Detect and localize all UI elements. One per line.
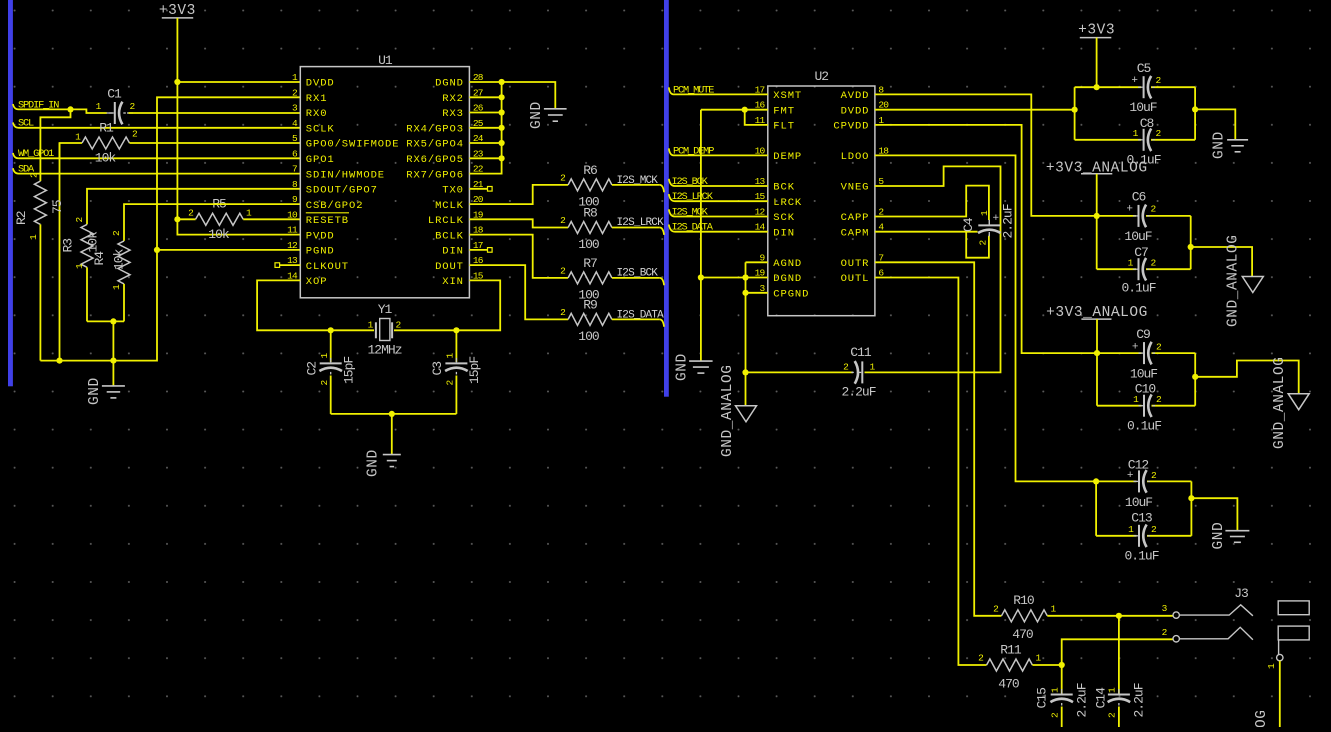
svg-text:C4: C4 bbox=[961, 217, 976, 232]
svg-text:LRCK: LRCK bbox=[773, 197, 802, 209]
svg-text:DEMP: DEMP bbox=[773, 151, 802, 163]
connector J3 bbox=[1162, 586, 1310, 669]
wire SPDIF to R2 bbox=[40, 109, 70, 181]
wire C5 to GND bbox=[1195, 109, 1235, 139]
svg-text:J3: J3 bbox=[1234, 586, 1248, 601]
capacitor C4 bbox=[961, 204, 1016, 245]
svg-text:TX0: TX0 bbox=[442, 185, 464, 197]
ground GND (U2) bbox=[675, 353, 713, 381]
svg-text:C3: C3 bbox=[430, 362, 445, 376]
IC U1 bbox=[287, 53, 484, 298]
junction GND rail a bbox=[56, 358, 62, 364]
svg-text:10uF: 10uF bbox=[1130, 367, 1157, 382]
net label PCM_DEMP bbox=[669, 146, 714, 158]
svg-text:10uF: 10uF bbox=[1124, 229, 1151, 244]
wire RX1 tie bbox=[157, 97, 300, 250]
ground GND_ANALOG (C6) bbox=[1226, 234, 1264, 327]
bus B1 (left) bbox=[8, 0, 13, 386]
svg-text:C8: C8 bbox=[1140, 116, 1154, 131]
svg-text:10k: 10k bbox=[95, 151, 117, 166]
svg-text:AVDD: AVDD bbox=[841, 90, 870, 102]
svg-text:10k: 10k bbox=[86, 231, 101, 253]
svg-text:VNEG: VNEG bbox=[841, 182, 870, 194]
wire to GND bbox=[112, 321, 114, 360]
svg-text:GND: GND bbox=[529, 101, 545, 129]
svg-text:CSB/GPO2: CSB/GPO2 bbox=[306, 200, 364, 212]
wire FMT to GND bbox=[700, 110, 702, 361]
ground GND (left) bbox=[87, 361, 125, 405]
resistor R5 bbox=[177, 197, 252, 243]
junction R10/C14 bbox=[1116, 613, 1122, 619]
net label I2S_DATA (U2) bbox=[669, 222, 768, 234]
capacitor C15 bbox=[1035, 683, 1090, 727]
svg-text:15pF: 15pF bbox=[467, 357, 482, 384]
wire VNEG bbox=[865, 166, 1001, 372]
net label SCL bbox=[13, 118, 34, 130]
wire CAPM bbox=[875, 231, 978, 233]
junction R3/R4 bbox=[110, 318, 116, 324]
ground GND (U1 top right) bbox=[529, 101, 567, 129]
svg-text:10k: 10k bbox=[112, 248, 127, 270]
wire R11 to J3 pin2 bbox=[1032, 639, 1173, 665]
capacitor C2 bbox=[305, 330, 357, 414]
svg-text:GND: GND bbox=[1211, 522, 1227, 550]
wire +3V3 to DVDD/PVDD bbox=[177, 18, 300, 235]
junction DGND 1 bbox=[499, 94, 505, 100]
svg-text:R9: R9 bbox=[583, 297, 597, 312]
wire C2/C3 gnd rail bbox=[331, 413, 457, 415]
svg-text:GND: GND bbox=[1212, 131, 1228, 159]
svg-text:GPO0/SWIFMODE: GPO0/SWIFMODE bbox=[306, 139, 400, 151]
svg-text:+3V3: +3V3 bbox=[1078, 22, 1115, 38]
wire LDOO bbox=[875, 155, 1096, 481]
svg-text:RESETB: RESETB bbox=[306, 215, 349, 227]
svg-text:LRCLK: LRCLK bbox=[428, 215, 464, 227]
capacitor C14 bbox=[1094, 683, 1147, 727]
svg-text:FLT: FLT bbox=[773, 121, 795, 133]
junction C12 left bbox=[1093, 478, 1099, 484]
svg-text:RX3: RX3 bbox=[442, 108, 464, 120]
svg-text:GND: GND bbox=[366, 449, 382, 477]
svg-text:U1: U1 bbox=[378, 53, 393, 68]
svg-text:DVDD: DVDD bbox=[841, 105, 870, 117]
svg-text:U2: U2 bbox=[814, 69, 828, 84]
junction XIN/C3 bbox=[453, 327, 459, 333]
svg-text:XSMT: XSMT bbox=[773, 90, 802, 102]
wire C5/C8 frame bbox=[1075, 87, 1196, 140]
junction AGND bracket bbox=[742, 274, 748, 280]
svg-text:C7: C7 bbox=[1134, 245, 1148, 260]
svg-text:SCK: SCK bbox=[773, 212, 795, 224]
svg-text:2.2uF: 2.2uF bbox=[1075, 683, 1090, 717]
svg-text:RX5/GPO4: RX5/GPO4 bbox=[406, 139, 464, 151]
junction +3V3/DVDD bbox=[174, 79, 180, 85]
svg-text:PGND: PGND bbox=[306, 246, 335, 258]
svg-text:AGND: AGND bbox=[773, 258, 802, 270]
resistor R3 bbox=[61, 189, 301, 322]
capacitor C5 bbox=[1129, 61, 1161, 115]
svg-text:GND_ANALOG: GND_ANALOG bbox=[1226, 234, 1242, 327]
wire PCM_DEMP bbox=[674, 154, 768, 156]
wire DVDD pin1 bbox=[177, 81, 300, 83]
resistor R6 / net I2S_MCK bbox=[469, 163, 664, 210]
svg-text:I2S_DATA: I2S_DATA bbox=[617, 310, 665, 322]
svg-text:RX6/GPO5: RX6/GPO5 bbox=[406, 154, 464, 166]
svg-text:GND_ANALOG: GND_ANALOG bbox=[1272, 356, 1288, 449]
wire SDA to SDIN bbox=[19, 173, 301, 175]
capacitor C7 bbox=[1121, 245, 1156, 296]
junction +3V3_ANALOG 2 stem bbox=[1094, 350, 1100, 356]
svg-text:XOP: XOP bbox=[306, 276, 328, 288]
svg-text:2.2uF: 2.2uF bbox=[841, 385, 875, 400]
resistor R9 / net I2S_DATA bbox=[469, 265, 664, 344]
no-connect TX0 pin21 bbox=[469, 187, 492, 192]
svg-text:+3V3: +3V3 bbox=[159, 3, 196, 19]
wire R10 to J3 bbox=[1047, 615, 1173, 617]
svg-text:100: 100 bbox=[578, 329, 599, 344]
resistor R7 / net I2S_BCK bbox=[469, 235, 664, 303]
net label SDA bbox=[13, 164, 35, 176]
junction DGND 2 bbox=[499, 109, 505, 115]
svg-text:10k: 10k bbox=[208, 227, 230, 242]
svg-text:+: + bbox=[1126, 204, 1132, 216]
svg-text:PVDD: PVDD bbox=[306, 230, 335, 242]
capacitor C10 bbox=[1127, 382, 1162, 434]
svg-text:C6: C6 bbox=[1132, 190, 1146, 205]
junction C9 gnd bbox=[1192, 374, 1198, 380]
svg-text:11: 11 bbox=[287, 225, 298, 236]
svg-text:2.2uF: 2.2uF bbox=[1132, 683, 1147, 717]
net label I2S_BCK (U2) bbox=[669, 176, 768, 188]
svg-text:BCLK: BCLK bbox=[435, 230, 464, 242]
wire C14 stem bbox=[1118, 616, 1120, 694]
svg-text:100: 100 bbox=[578, 237, 599, 252]
svg-text:GND: GND bbox=[87, 377, 103, 405]
svg-text:RX0: RX0 bbox=[306, 108, 328, 120]
wire CAPP bbox=[875, 186, 989, 220]
svg-text:C15: C15 bbox=[1035, 688, 1050, 709]
svg-text:+: + bbox=[1127, 470, 1133, 482]
svg-text:OUTL: OUTL bbox=[841, 273, 870, 285]
resistor R1 bbox=[60, 121, 139, 166]
power +3V3_ANALOG (1) bbox=[1046, 161, 1148, 216]
svg-text:C13: C13 bbox=[1131, 511, 1152, 526]
svg-text:SCLK: SCLK bbox=[306, 124, 335, 136]
junction R5/+3V3 bbox=[174, 216, 180, 222]
junction GND_ANALOG stem bbox=[742, 369, 748, 375]
svg-text:Y1: Y1 bbox=[378, 302, 393, 317]
junction DGND 0 bbox=[499, 79, 505, 85]
wire C15 stem bbox=[1061, 665, 1063, 694]
junction DGND net bbox=[698, 274, 704, 280]
svg-text:R6: R6 bbox=[583, 163, 597, 178]
wire PGND to GND rail bbox=[40, 250, 157, 361]
junction DGND 5 bbox=[499, 155, 505, 161]
svg-text:DIN: DIN bbox=[442, 246, 464, 258]
svg-text:C11: C11 bbox=[850, 345, 872, 360]
svg-text:0.1uF: 0.1uF bbox=[1121, 281, 1155, 296]
junction crystal gnd bbox=[389, 411, 395, 417]
junction SPDIF_IN bbox=[67, 106, 73, 112]
svg-text:C2: C2 bbox=[305, 362, 320, 376]
IC U2 bbox=[755, 69, 890, 316]
svg-text:R1: R1 bbox=[99, 121, 114, 136]
ground GND_ANALOG (U2) bbox=[720, 364, 757, 457]
no-connect DIN pin17 bbox=[469, 248, 492, 253]
wire C12/C13 frame bbox=[1096, 481, 1191, 535]
svg-text:DVDD: DVDD bbox=[306, 78, 335, 90]
capacitor C6 bbox=[1124, 190, 1156, 245]
svg-text:RX4/GPO3: RX4/GPO3 bbox=[406, 124, 464, 136]
wire J3 pin1 to GND_ANALOG bbox=[1254, 661, 1280, 732]
resistor R4 bbox=[92, 204, 300, 321]
svg-text:0.1uF: 0.1uF bbox=[1127, 419, 1161, 434]
junction FMT bbox=[742, 107, 748, 113]
capacitor C8 bbox=[1126, 116, 1161, 168]
wire C12 to GND bbox=[1191, 498, 1237, 531]
wire C6/C7 frame bbox=[1097, 216, 1191, 269]
svg-text:R8: R8 bbox=[583, 206, 597, 221]
wire PCM_MUTE bbox=[674, 93, 768, 95]
svg-text:R4: R4 bbox=[92, 251, 107, 266]
svg-text:R11: R11 bbox=[1000, 643, 1022, 658]
capacitor C11 bbox=[746, 345, 876, 400]
bus B2 (I2S) bbox=[664, 0, 669, 397]
svg-text:I2S_MCK: I2S_MCK bbox=[617, 175, 659, 187]
svg-text:DIN: DIN bbox=[773, 227, 795, 239]
svg-text:DOUT: DOUT bbox=[435, 261, 464, 273]
junction +3V3_ANALOG stem bbox=[1094, 213, 1100, 219]
svg-text:75: 75 bbox=[50, 200, 65, 214]
wire R5 to RESETB bbox=[243, 218, 300, 220]
svg-text:DGND: DGND bbox=[773, 273, 802, 285]
svg-text:R10: R10 bbox=[1013, 593, 1034, 608]
wire AGND/DGND/CPGND bbox=[701, 262, 768, 372]
net label I2S_MCK (U2) bbox=[669, 206, 768, 218]
ground GND (C5/C8) bbox=[1212, 131, 1249, 159]
capacitor C12 bbox=[1125, 458, 1157, 511]
svg-text:470: 470 bbox=[998, 677, 1019, 692]
svg-text:7: 7 bbox=[292, 164, 297, 175]
ground GND_ANALOG (C9) bbox=[1272, 356, 1309, 449]
svg-text:GPO1: GPO1 bbox=[306, 154, 335, 166]
svg-text:OUTR: OUTR bbox=[841, 258, 870, 270]
capacitor C9 bbox=[1130, 327, 1162, 382]
svg-text:0.1uF: 0.1uF bbox=[1124, 549, 1158, 564]
svg-text:12: 12 bbox=[287, 240, 298, 251]
svg-text:15pF: 15pF bbox=[342, 357, 357, 384]
net label I2S_LRCK (U2) bbox=[669, 191, 768, 203]
ground GND (C12/C13) bbox=[1211, 522, 1249, 550]
no-connect CLKOUT pin13 bbox=[275, 263, 300, 268]
wire XIN bbox=[456, 280, 500, 330]
junction CPGND bbox=[742, 290, 748, 296]
svg-text:SDIN/HWMODE: SDIN/HWMODE bbox=[306, 169, 385, 181]
junction GND rail b bbox=[110, 358, 116, 364]
junction PGND bbox=[154, 247, 160, 253]
svg-text:CLKOUT: CLKOUT bbox=[306, 261, 349, 273]
svg-text:+: + bbox=[1132, 342, 1138, 354]
svg-text:LDOO: LDOO bbox=[841, 151, 870, 163]
wire DGND group bbox=[469, 82, 555, 174]
junction C5 gnd bbox=[1192, 106, 1198, 112]
wire DVDD to C5 bbox=[875, 109, 1075, 111]
svg-text:CAPM: CAPM bbox=[841, 227, 870, 239]
wire R1 pulldown bbox=[59, 143, 61, 361]
svg-text:XIN: XIN bbox=[442, 276, 464, 288]
wire OUTL bbox=[875, 278, 987, 666]
net label PCM_MUTE bbox=[669, 85, 714, 97]
svg-text:I2S_BCK: I2S_BCK bbox=[617, 268, 659, 280]
wire AVDD bbox=[875, 94, 1097, 215]
wire OUTR bbox=[875, 262, 1002, 616]
svg-text:FMT: FMT bbox=[773, 105, 795, 117]
power +3V3 (right) bbox=[1078, 22, 1115, 87]
svg-text:2.2uF: 2.2uF bbox=[1001, 204, 1016, 238]
svg-text:MCLK: MCLK bbox=[435, 200, 464, 212]
wire R1 to GPO0 bbox=[130, 142, 301, 144]
svg-text:CPGND: CPGND bbox=[773, 289, 809, 301]
junction DGND 4 bbox=[499, 140, 505, 146]
svg-text:10uF: 10uF bbox=[1129, 100, 1156, 115]
svg-text:12MHz: 12MHz bbox=[367, 343, 401, 358]
capacitor C1 bbox=[96, 87, 136, 125]
junction C6 gnd bbox=[1188, 244, 1194, 250]
svg-text:BCK: BCK bbox=[773, 182, 795, 194]
junction R11 bbox=[1059, 662, 1065, 668]
resistor R10 bbox=[993, 593, 1056, 642]
svg-text:CAPP: CAPP bbox=[841, 212, 870, 224]
capacitor C13 bbox=[1124, 511, 1158, 564]
svg-text:R3: R3 bbox=[61, 239, 76, 253]
svg-text:RX7/GPO6: RX7/GPO6 bbox=[406, 169, 464, 181]
crystal Y1 bbox=[367, 302, 401, 358]
svg-text:SDOUT/GPO7: SDOUT/GPO7 bbox=[306, 185, 378, 197]
net label SPDIF_IN bbox=[13, 99, 59, 111]
wire Y1 left bbox=[331, 329, 374, 331]
svg-text:C5: C5 bbox=[1137, 61, 1151, 76]
wire SCL to SCLK bbox=[19, 127, 301, 129]
wire C6 to GND_ANALOG bbox=[1191, 247, 1252, 277]
wire CAPM bracket bbox=[966, 232, 989, 258]
svg-text:C9: C9 bbox=[1136, 327, 1150, 342]
net label WM_GPO bbox=[13, 148, 54, 160]
wire SPDIF_IN bbox=[19, 109, 107, 113]
svg-text:470: 470 bbox=[1012, 627, 1033, 642]
resistor R8 / net I2S_LRCK bbox=[469, 206, 664, 253]
svg-text:10: 10 bbox=[287, 209, 298, 220]
svg-text:R7: R7 bbox=[583, 256, 597, 271]
svg-text:10uF: 10uF bbox=[1125, 495, 1152, 510]
svg-text:+: + bbox=[1131, 75, 1137, 87]
svg-text:CPVDD: CPVDD bbox=[833, 121, 869, 133]
svg-text:GND: GND bbox=[675, 353, 691, 381]
wire CPVDD bbox=[875, 125, 1097, 353]
junction DVDD bbox=[1072, 107, 1078, 113]
junction +3V3 stem bbox=[1094, 84, 1100, 90]
junction XOP/C2 bbox=[328, 327, 334, 333]
svg-text:C1: C1 bbox=[107, 87, 122, 102]
svg-text:I2S_LRCK: I2S_LRCK bbox=[617, 217, 665, 229]
svg-text:GND_ANALOG: GND_ANALOG bbox=[720, 364, 736, 457]
wire R3/R4 join bbox=[87, 320, 124, 322]
wire C1 to RX0 bbox=[129, 112, 301, 114]
power +3V3_ANALOG (2) bbox=[1046, 305, 1148, 353]
svg-text:GND_ANALOG: GND_ANALOG bbox=[1254, 709, 1270, 727]
wire C9 to GND_ANALOG bbox=[1195, 361, 1299, 394]
resistor R11 bbox=[978, 643, 1041, 692]
power +3V3 (U1) bbox=[159, 3, 196, 19]
junction C12 gnd bbox=[1188, 495, 1194, 501]
wire XOP bbox=[257, 280, 331, 330]
svg-text:DGND: DGND bbox=[435, 78, 464, 90]
svg-text:R2: R2 bbox=[14, 211, 29, 225]
resistor R2 bbox=[14, 172, 65, 361]
ground GND (crystal) bbox=[366, 414, 401, 477]
wire WM_GPO to GPO1 bbox=[19, 157, 301, 159]
wire PGND bbox=[157, 249, 300, 251]
svg-text:RX1: RX1 bbox=[306, 93, 328, 105]
wire Y1 right bbox=[394, 329, 456, 331]
junction DGND 3 bbox=[499, 125, 505, 131]
wire C9/C10 frame bbox=[1097, 353, 1195, 406]
capacitor C3 bbox=[430, 330, 482, 414]
svg-text:RX2: RX2 bbox=[442, 93, 464, 105]
wire FMT/FLT tie bbox=[701, 110, 768, 125]
